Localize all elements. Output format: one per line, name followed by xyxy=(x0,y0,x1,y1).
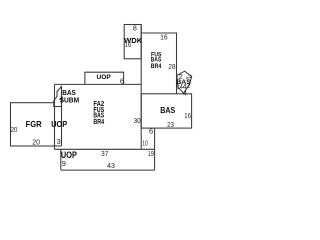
svg-text:30: 30 xyxy=(134,116,141,125)
svg-text:6: 6 xyxy=(149,127,153,136)
svg-text:19: 19 xyxy=(148,149,154,158)
svg-text:28: 28 xyxy=(168,62,175,71)
svg-text:FGR: FGR xyxy=(26,120,42,129)
svg-text:23: 23 xyxy=(167,120,174,129)
svg-text:20: 20 xyxy=(11,125,18,134)
svg-text:BAS: BAS xyxy=(160,105,175,115)
FUS section top and right walls xyxy=(141,33,176,94)
svg-text:16: 16 xyxy=(125,40,132,49)
bottom porch bottom wall xyxy=(61,169,155,171)
svg-text:BR4: BR4 xyxy=(151,63,162,70)
svg-text:2: 2 xyxy=(179,72,183,81)
garage bottom wall extension xyxy=(55,145,62,147)
step wall (19) xyxy=(154,128,156,170)
UOP 3ft strip divider wall xyxy=(61,87,63,147)
rotated BAS bay polygon xyxy=(177,71,192,93)
svg-text:43: 43 xyxy=(107,161,115,170)
svg-text:3: 3 xyxy=(57,137,61,146)
svg-text:UOP: UOP xyxy=(97,74,112,81)
BAS right box outline xyxy=(141,94,191,128)
svg-text:2: 2 xyxy=(187,81,191,90)
central box left wall xyxy=(54,84,56,149)
WDK deck box outline xyxy=(124,25,141,59)
central box top wall xyxy=(55,83,142,85)
svg-text:4: 4 xyxy=(59,94,63,103)
svg-text:9: 9 xyxy=(62,159,66,168)
svg-text:37: 37 xyxy=(101,149,109,158)
svg-text:BR4: BR4 xyxy=(93,117,104,126)
svg-text:16: 16 xyxy=(160,33,168,42)
svg-text:16: 16 xyxy=(184,111,191,120)
central box bottom wall / porch top xyxy=(55,148,155,150)
svg-text:UOP: UOP xyxy=(51,120,67,129)
main vertical wall x=141 xyxy=(140,25,142,150)
bottom porch left wall xyxy=(60,149,62,170)
svg-text:6: 6 xyxy=(120,76,124,85)
FGR garage box outline xyxy=(11,103,55,146)
svg-text:10: 10 xyxy=(142,139,148,148)
top UOP porch outline xyxy=(85,72,124,84)
svg-text:20: 20 xyxy=(32,137,40,146)
BAS SUBM bay polygon xyxy=(54,87,62,107)
svg-text:8: 8 xyxy=(133,24,137,33)
